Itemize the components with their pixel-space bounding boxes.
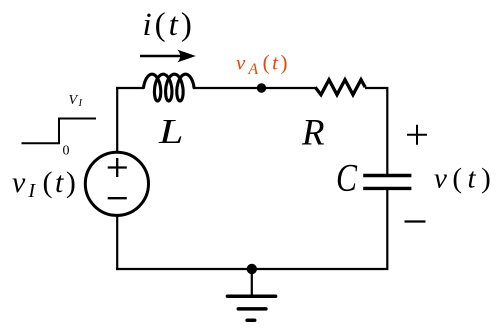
step waveform sketch bbox=[22, 119, 97, 144]
ground symbol bar 2 (middle) bbox=[238, 307, 266, 311]
svg-text:0: 0 bbox=[63, 144, 70, 159]
label + capacitor polarity bbox=[407, 125, 427, 145]
wire: top-left horizontal from corner to inductor bbox=[116, 87, 144, 89]
svg-text:v(t): v(t) bbox=[434, 163, 496, 195]
ground stub wire bbox=[251, 269, 253, 296]
capacitor C1 bottom plate bbox=[363, 187, 411, 190]
svg-text:R: R bbox=[301, 113, 324, 154]
current direction arrow bbox=[140, 55, 184, 58]
capacitor C1 top plate bbox=[363, 174, 411, 177]
wire: node A to resistor bbox=[262, 87, 316, 89]
svg-text:i(t): i(t) bbox=[143, 7, 195, 43]
ground symbol bar 3 (bottom) bbox=[247, 318, 255, 322]
wire: left vertical from top-left corner down to source top bbox=[116, 87, 118, 152]
node A junction dot bbox=[257, 83, 266, 92]
label - capacitor polarity bbox=[405, 220, 426, 222]
svg-text:L: L bbox=[158, 112, 184, 151]
svg-text:vI(t): vI(t) bbox=[12, 166, 78, 202]
voltage source V1 circle bbox=[85, 152, 148, 215]
wire: resistor to top-right corner and down to capacitor top plate bbox=[365, 87, 387, 176]
svg-text:vA(t): vA(t) bbox=[236, 50, 290, 78]
minus sign inside source bbox=[108, 197, 127, 199]
wire: capacitor bottom plate to bottom-right corner then bottom wire to left corner bbox=[116, 188, 388, 269]
svg-text:C: C bbox=[336, 157, 358, 200]
wire: inductor to node A bbox=[194, 87, 262, 89]
resistor R1 zigzag bbox=[315, 80, 365, 95]
wire: source bottom to bottom-left corner bbox=[116, 215, 118, 270]
svg-text:VI: VI bbox=[69, 93, 83, 109]
plus sign inside source bbox=[108, 158, 127, 177]
inductor L1 coil bbox=[144, 74, 195, 101]
ground symbol bar 1 (top) bbox=[227, 295, 275, 299]
ground junction dot bbox=[247, 264, 257, 274]
